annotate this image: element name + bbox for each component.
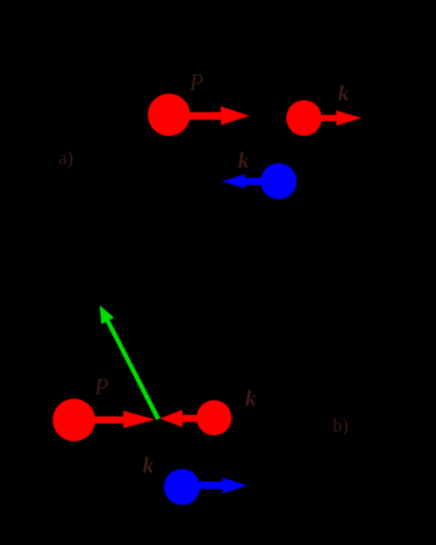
photon arrow k (b), pointing right xyxy=(198,478,247,494)
electron ball (a) left, red xyxy=(148,94,190,136)
momentum arrow k (a) right xyxy=(320,110,362,125)
svg-text:P: P xyxy=(94,375,109,400)
svg-text:k: k xyxy=(338,81,349,106)
svg-text:k: k xyxy=(238,148,249,173)
svg-text:a): a) xyxy=(59,148,74,169)
momentum arrow k (b), pointing left xyxy=(160,410,198,427)
photon arrow k (a), pointing left xyxy=(222,174,262,188)
svg-text:k: k xyxy=(143,453,154,478)
momentum arrow P (b) xyxy=(93,411,155,428)
svg-text:b): b) xyxy=(333,416,349,437)
faint ellipse outline (barely visible trace) xyxy=(208,58,402,258)
photon ball (a), blue xyxy=(261,163,297,199)
svg-text:P: P xyxy=(189,70,204,95)
resultant arrow, green xyxy=(100,305,161,420)
electron ball (b) left, red xyxy=(53,399,96,442)
electron ball (b) right, red xyxy=(196,400,231,435)
photon ball (b), blue xyxy=(164,469,200,505)
momentum arrow P (a) xyxy=(189,106,249,125)
faint line segments near photon vertex xyxy=(213,128,258,220)
electron ball (a) right, red xyxy=(286,100,322,136)
svg-text:k: k xyxy=(245,386,256,411)
